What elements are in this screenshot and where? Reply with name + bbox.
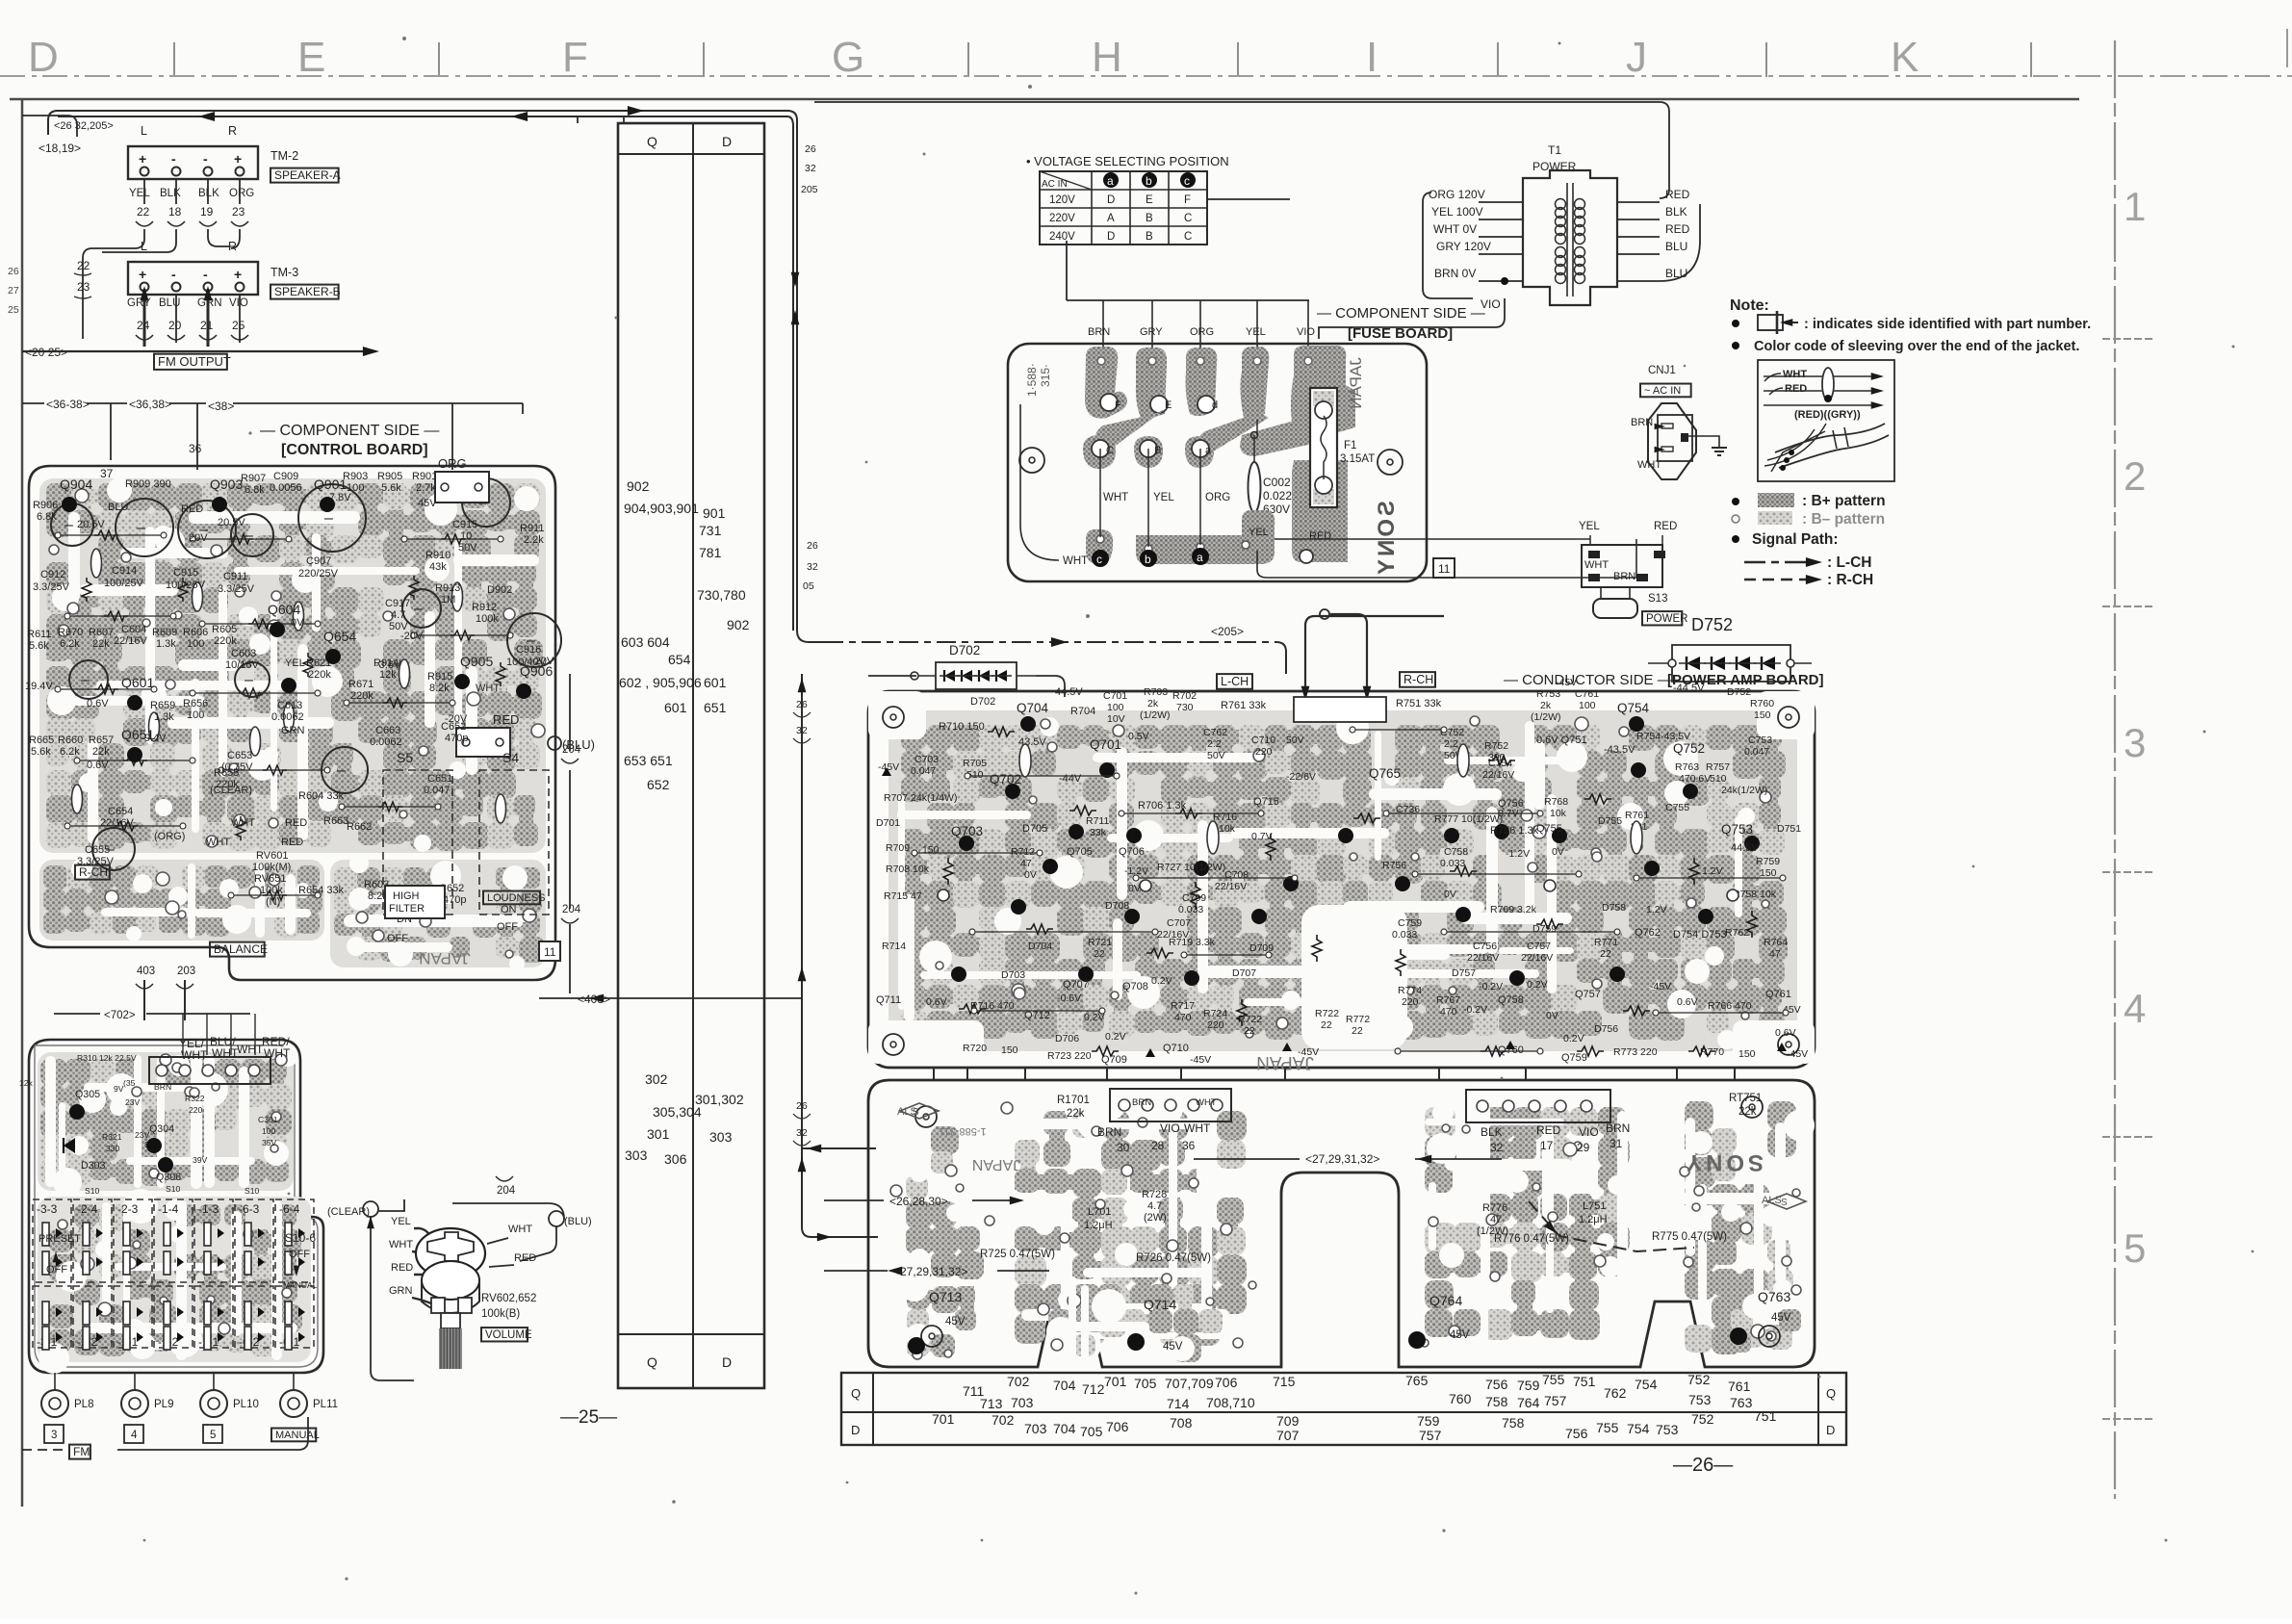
svg-text:Q702: Q702 <box>990 772 1021 786</box>
svg-text:-0.2V: -0.2V <box>1463 1004 1487 1016</box>
svg-text:22/16V: 22/16V <box>1215 881 1247 892</box>
svg-text:100/25V: 100/25V <box>104 578 144 589</box>
svg-text:<205>: <205> <box>1211 625 1244 638</box>
svg-text:F: F <box>562 34 588 81</box>
svg-text:RV602,652: RV602,652 <box>481 1293 536 1304</box>
svg-text:220k: 220k <box>214 635 237 647</box>
svg-text:0V: 0V <box>291 617 304 629</box>
svg-text:Q755: Q755 <box>1536 823 1562 835</box>
svg-text:R767: R767 <box>1436 994 1460 1006</box>
svg-text:POWER: POWER <box>1646 613 1687 625</box>
wire color labels YEL BLK BLK ORG <box>129 188 254 199</box>
svg-text:R769 3.2k: R769 3.2k <box>1490 904 1537 915</box>
svg-text:R715 47: R715 47 <box>884 890 922 902</box>
svg-text:C915: C915 <box>452 519 477 530</box>
svg-text:R752: R752 <box>1484 740 1508 752</box>
svg-text:BRN: BRN <box>1088 326 1110 338</box>
svg-text:23: 23 <box>77 280 90 294</box>
label D752 page ref <box>1691 615 1733 634</box>
svg-text:R725 0.47(5W): R725 0.47(5W) <box>980 1249 1055 1260</box>
svg-text:R659: R659 <box>150 700 175 711</box>
svg-text:(1/2W): (1/2W) <box>1531 711 1561 723</box>
svg-text:YEL: YEL <box>1249 527 1269 538</box>
lower vertical bus <box>793 674 811 1227</box>
transformer secondary labels <box>1665 188 1690 280</box>
fuse board feeder wires BRN GRY ORG YEL VIO <box>1067 199 1315 366</box>
top ruler letters D-K <box>28 34 1919 81</box>
svg-text:[CONTROL BOARD]: [CONTROL BOARD] <box>281 442 428 458</box>
control board R-CH box <box>75 865 110 880</box>
svg-text:YEL: YEL <box>285 657 305 669</box>
svg-text:a: a <box>1197 551 1203 564</box>
fuse board label YEL RED bottom <box>1249 527 1331 542</box>
svg-text:BLK: BLK <box>198 188 219 199</box>
lower board part labels left <box>929 1095 1217 1353</box>
svg-text:R707 24k(1/4W): R707 24k(1/4W) <box>884 792 957 804</box>
svg-text:MANUAL: MANUAL <box>283 1280 318 1290</box>
svg-text:-45V: -45V <box>1787 1048 1808 1060</box>
svg-text:D757: D757 <box>1452 967 1476 979</box>
fuse board copper blob ORG <box>1186 348 1218 416</box>
svg-text:R757: R757 <box>1706 761 1730 773</box>
svg-text:–: – <box>81 672 90 688</box>
svg-text:-: - <box>203 267 208 282</box>
svg-text:701: 701 <box>932 1411 955 1427</box>
fuse board lower right copper block <box>1292 460 1348 563</box>
power amp board outline <box>868 691 1815 1068</box>
terminal numbers 24 20 21 25 <box>136 295 248 340</box>
svg-text:36: 36 <box>189 442 202 455</box>
svg-text:601: 601 <box>704 675 727 690</box>
speaker A wires to bus <box>83 229 240 339</box>
svg-text:0.047: 0.047 <box>911 765 936 777</box>
svg-text:0.5V: 0.5V <box>1128 731 1149 742</box>
control board RED junction box <box>456 712 595 757</box>
svg-text:R-CH: R-CH <box>79 865 108 879</box>
svg-text:0V: 0V <box>1024 869 1037 881</box>
svg-text:C301: C301 <box>258 1115 278 1124</box>
svg-text:SPEAKER-A: SPEAKER-A <box>274 168 341 182</box>
svg-text:702: 702 <box>1007 1374 1030 1389</box>
svg-text:R717: R717 <box>1171 1000 1195 1012</box>
svg-text:RED: RED <box>514 1252 536 1264</box>
svg-text:— COMPONENT SIDE —: — COMPONENT SIDE — <box>1317 305 1485 322</box>
svg-text:C755: C755 <box>1665 802 1689 813</box>
svg-text:C916: C916 <box>516 644 541 656</box>
svg-text:10: 10 <box>460 530 472 542</box>
bottom table headers Q D <box>851 1386 1836 1437</box>
fuse board label WHT bottom left <box>1020 404 1088 567</box>
volume pot labels <box>481 1293 536 1341</box>
left border small labels 26 27 25 <box>8 266 19 316</box>
svg-text:752: 752 <box>1687 1372 1711 1387</box>
svg-text:651: 651 <box>704 700 727 715</box>
svg-text:D751: D751 <box>1777 823 1801 835</box>
svg-text:(1/2W): (1/2W) <box>1140 709 1171 721</box>
svg-text:WHT 0V: WHT 0V <box>1433 222 1477 236</box>
svg-text:-0.2V: -0.2V <box>1479 981 1503 992</box>
svg-text:(2W): (2W) <box>1144 1212 1167 1224</box>
svg-text:D: D <box>722 1354 732 1370</box>
svg-text:K: K <box>1891 34 1919 81</box>
svg-text:712: 712 <box>1082 1381 1105 1397</box>
top ruler tick marks <box>174 42 2031 77</box>
svg-text:WHT: WHT <box>389 1239 413 1250</box>
svg-text:R901: R901 <box>412 471 437 482</box>
svg-text:12k: 12k <box>379 669 397 681</box>
svg-text:470: 470 <box>1440 1006 1457 1018</box>
legend B- pattern <box>1732 511 1885 528</box>
svg-text:: B– pattern: : B– pattern <box>1802 511 1885 528</box>
svg-text:4.7: 4.7 <box>391 609 405 621</box>
svg-text:44.5V: 44.5V <box>1055 686 1083 698</box>
svg-text:BRN: BRN <box>1631 417 1653 428</box>
svg-text:Q761: Q761 <box>1765 989 1791 1000</box>
svg-text:Q710: Q710 <box>1163 1043 1189 1054</box>
svg-text:32: 32 <box>796 725 808 736</box>
svg-text:-44.5V: -44.5V <box>1673 683 1705 694</box>
svg-text:751: 751 <box>1573 1374 1596 1389</box>
svg-text:—25—: —25— <box>560 1407 617 1428</box>
svg-text:-2-3: -2-3 <box>117 1202 139 1216</box>
svg-text:YEL 100V: YEL 100V <box>1431 205 1483 219</box>
svg-text:MANUAL: MANUAL <box>275 1430 320 1441</box>
control board side-id box 11 <box>539 941 560 961</box>
svg-text:765: 765 <box>1405 1373 1429 1388</box>
svg-text:1.2μH: 1.2μH <box>1084 1220 1113 1231</box>
svg-text:2.2: 2.2 <box>1207 738 1222 750</box>
svg-text:Q711: Q711 <box>876 994 901 1006</box>
svg-text:–: – <box>137 520 145 536</box>
voltage selecting table <box>1040 171 1207 245</box>
wire 403 from control board to right <box>539 924 802 1006</box>
svg-text:2.7k: 2.7k <box>416 482 436 494</box>
left bus labels 22 23 <box>74 259 91 298</box>
svg-text:0V: 0V <box>1128 883 1141 894</box>
svg-text:2k: 2k <box>1540 700 1552 711</box>
svg-text:763: 763 <box>1730 1395 1753 1410</box>
svg-text:20.5V: 20.5V <box>77 519 105 530</box>
svg-text:R611: R611 <box>27 629 51 640</box>
jacket diagram wires and labels <box>1764 368 1889 472</box>
volume pot wires <box>367 1199 556 1380</box>
svg-text:Q712: Q712 <box>1024 1010 1050 1021</box>
svg-text:RV651: RV651 <box>254 873 286 885</box>
svg-text:Q759: Q759 <box>1561 1052 1587 1064</box>
svg-text:R720: R720 <box>963 1043 987 1054</box>
svg-text:D705: D705 <box>1022 823 1047 835</box>
svg-text:36: 36 <box>1182 1139 1196 1152</box>
svg-text:+: + <box>139 267 146 282</box>
connector CNJ1 outline <box>1648 403 1696 479</box>
svg-text:759: 759 <box>1417 1413 1440 1429</box>
note heading <box>1730 297 1769 314</box>
svg-text:654: 654 <box>668 652 691 667</box>
svg-text:S10-6: S10-6 <box>285 1231 316 1245</box>
svg-text:R1701: R1701 <box>1057 1095 1090 1106</box>
svg-text:-45V: -45V <box>1556 677 1577 688</box>
svg-text:RED: RED <box>1665 222 1690 236</box>
svg-text:C759: C759 <box>1398 917 1422 929</box>
svg-text:GRY: GRY <box>1140 326 1163 338</box>
svg-text:: B+ pattern: : B+ pattern <box>1802 493 1886 509</box>
svg-text:6.8k: 6.8k <box>245 484 265 496</box>
control board LOUDNESS label <box>483 891 546 905</box>
svg-text:D706: D706 <box>1055 1033 1079 1044</box>
svg-text:R711: R711 <box>1086 815 1109 827</box>
svg-text:Q706: Q706 <box>1119 846 1145 858</box>
svg-text:601: 601 <box>664 700 687 715</box>
svg-text:0V: 0V <box>1444 889 1456 900</box>
lower board connector box right <box>1466 1090 1630 1154</box>
svg-text:Q708: Q708 <box>1122 981 1148 992</box>
svg-text:a: a <box>1205 445 1212 456</box>
right ruler segment ticks <box>2102 339 2154 1419</box>
svg-text:652: 652 <box>647 777 670 792</box>
fm output wire 20-25 <box>22 318 379 359</box>
svg-text:470p: 470p <box>443 894 466 906</box>
svg-text:BLU: BLU <box>1665 240 1687 253</box>
svg-text:BRN: BRN <box>1606 1121 1630 1135</box>
fuse board SONY mirrored <box>1374 501 1400 578</box>
svg-text:C911: C911 <box>223 571 247 582</box>
svg-text:<36,38>: <36,38> <box>129 398 171 411</box>
page number -25- <box>560 1407 617 1428</box>
svg-text:22k: 22k <box>92 746 110 758</box>
svg-text:G: G <box>832 34 864 81</box>
svg-text:<702>: <702> <box>104 1010 136 1021</box>
svg-text:754: 754 <box>1627 1421 1650 1436</box>
vertical bus labels 26 32 205 upper <box>791 143 818 324</box>
fuse board circled letters F E d <box>1106 400 1218 456</box>
svg-text:730,780: 730,780 <box>697 587 746 603</box>
svg-text:708,710: 708,710 <box>1206 1395 1255 1410</box>
svg-text:<18,19>: <18,19> <box>39 142 81 155</box>
svg-text:5: 5 <box>2124 1225 2146 1271</box>
svg-text:32: 32 <box>807 561 818 573</box>
svg-text:17: 17 <box>1540 1139 1554 1152</box>
svg-text:C604: C604 <box>121 624 146 635</box>
svg-text:R762: R762 <box>1725 927 1749 939</box>
svg-text:YEL: YEL <box>1153 492 1174 503</box>
svg-text:Q752: Q752 <box>1673 741 1705 756</box>
svg-text:D: D <box>28 34 59 81</box>
svg-text:220: 220 <box>1402 996 1419 1008</box>
svg-text:100: 100 <box>187 709 204 721</box>
svg-text:Q714: Q714 <box>1144 1297 1176 1312</box>
svg-text:TM-3: TM-3 <box>270 266 298 279</box>
svg-text:: L-CH: : L-CH <box>1827 554 1872 571</box>
drawing frame top line <box>10 98 2079 101</box>
svg-text:R774: R774 <box>1398 985 1422 996</box>
svg-text:603 604: 603 604 <box>621 634 670 650</box>
svg-text:R760: R760 <box>1750 698 1774 709</box>
fm board FM bus label <box>22 1417 308 1459</box>
svg-text:D: D <box>1107 194 1115 206</box>
svg-text:E: E <box>297 34 325 81</box>
svg-text:753: 753 <box>1656 1422 1679 1437</box>
svg-text:4: 4 <box>2124 986 2146 1031</box>
svg-text:S: S <box>913 1107 919 1118</box>
svg-text:22/16V: 22/16V <box>1467 952 1499 964</box>
svg-text:10V: 10V <box>1107 713 1125 725</box>
svg-text:708: 708 <box>1170 1415 1193 1431</box>
svg-text:2.2: 2.2 <box>1444 738 1458 750</box>
svg-text:100: 100 <box>1107 702 1124 713</box>
svg-text:BLK: BLK <box>1481 1125 1503 1139</box>
svg-text:[FUSE BOARD]: [FUSE BOARD] <box>1348 325 1453 342</box>
wire label 18,19 bracket <box>22 116 81 155</box>
svg-text:R771: R771 <box>1594 937 1618 948</box>
svg-text:701: 701 <box>1104 1374 1127 1389</box>
svg-text:c: c <box>1184 174 1190 188</box>
svg-text:C663: C663 <box>375 725 400 736</box>
svg-text:c: c <box>1096 553 1102 566</box>
svg-text:–: – <box>245 528 253 544</box>
svg-text:Q762: Q762 <box>1635 927 1661 939</box>
svg-text:R722: R722 <box>1315 1008 1339 1019</box>
svg-text:BRN: BRN <box>154 1082 171 1092</box>
svg-text:FILTER: FILTER <box>389 903 425 915</box>
svg-text:R768: R768 <box>1544 796 1568 808</box>
svg-text:100k: 100k <box>476 613 499 625</box>
svg-text:R321: R321 <box>102 1132 122 1142</box>
svg-text:302: 302 <box>645 1071 668 1087</box>
svg-text:C708: C708 <box>1224 869 1249 881</box>
svg-text:RED: RED <box>493 712 519 727</box>
lower board copper pattern right <box>1421 1101 1815 1354</box>
svg-text:5.6k: 5.6k <box>31 746 51 758</box>
svg-text:43k: 43k <box>429 561 447 573</box>
svg-text:23V: 23V <box>125 1097 141 1107</box>
svg-text:0.033: 0.033 <box>1440 858 1465 869</box>
svg-text:Q703: Q703 <box>951 824 983 838</box>
power connector YEL RED labels <box>1579 521 1677 545</box>
svg-text:403: 403 <box>137 966 155 977</box>
svg-text:WHT: WHT <box>206 837 230 848</box>
svg-text:<26,28,30>: <26,28,30> <box>889 1195 948 1208</box>
right ruler numbers 1-5 <box>2124 184 2146 1271</box>
top harness double wire <box>48 106 787 135</box>
control board switch S4 box <box>479 770 549 915</box>
svg-text:1-588-311: 1-588-311 <box>939 1125 986 1137</box>
note bullet 1 part-number side <box>1732 311 2091 334</box>
svg-text:714: 714 <box>1167 1396 1190 1411</box>
svg-text:0.6V: 0.6V <box>1677 996 1698 1008</box>
svg-text:H: H <box>1092 34 1122 81</box>
svg-text:C613: C613 <box>277 700 302 711</box>
svg-text:23: 23 <box>232 205 245 219</box>
svg-text:Q753: Q753 <box>1721 822 1753 837</box>
svg-text:R910: R910 <box>425 550 451 561</box>
svg-text:901: 901 <box>703 505 726 521</box>
svg-text:R: R <box>228 124 237 138</box>
power amp board capsule components <box>938 744 1738 901</box>
svg-text:D702: D702 <box>949 643 980 657</box>
lower board signal wire 27-29-31-32 <box>1194 1152 1502 1166</box>
svg-text:3: 3 <box>2124 720 2146 765</box>
svg-text:Note:: Note: <box>1730 297 1769 314</box>
fuse board copper blob BRN <box>1085 347 1127 419</box>
svg-text:22: 22 <box>1244 1025 1255 1037</box>
control board copper pattern <box>39 477 546 971</box>
fm switch matrix upper row <box>33 1199 314 1282</box>
svg-text:(ORG): (ORG) <box>154 831 185 842</box>
svg-text:WHT: WHT <box>1063 555 1088 567</box>
svg-text:C907: C907 <box>306 555 331 567</box>
svg-text:19: 19 <box>200 205 214 219</box>
svg-text:VOLUME: VOLUME <box>485 1329 532 1341</box>
svg-text:E: E <box>1146 194 1153 206</box>
fm switch contacts <box>42 1223 305 1350</box>
svg-text:R909 390: R909 390 <box>125 478 171 490</box>
fuse board pad B <box>1134 436 1163 468</box>
svg-text:703: 703 <box>1011 1395 1034 1410</box>
svg-text:150: 150 <box>1738 1048 1756 1060</box>
svg-text:204: 204 <box>562 744 581 756</box>
svg-text:902: 902 <box>727 617 750 632</box>
svg-text:R606: R606 <box>183 627 208 638</box>
svg-text:• VOLTAGE SELECTING POSITION: • VOLTAGE SELECTING POSITION <box>1026 154 1229 168</box>
svg-text:10/16V: 10/16V <box>225 659 260 671</box>
svg-text:FM: FM <box>73 1445 90 1458</box>
svg-text:Q705: Q705 <box>1067 846 1093 858</box>
svg-text:1.2V: 1.2V <box>1702 865 1723 877</box>
svg-text:-43.5V: -43.5V <box>1604 744 1635 756</box>
svg-text:R753: R753 <box>1536 688 1560 700</box>
svg-text:2.2k: 2.2k <box>524 534 544 546</box>
svg-text:BRN: BRN <box>1613 571 1635 582</box>
svg-text:5.6k: 5.6k <box>29 640 49 652</box>
svg-text:100: 100 <box>1579 700 1596 711</box>
svg-text:1.3k: 1.3k <box>154 711 174 723</box>
svg-text:D752: D752 <box>1691 615 1733 634</box>
power amp board copper pattern <box>888 710 1797 1051</box>
arrow into TM-3 terminals <box>141 286 213 347</box>
svg-text:470: 470 <box>1174 1012 1192 1023</box>
svg-text:-2-4: -2-4 <box>77 1202 98 1216</box>
svg-text:D: D <box>722 134 732 149</box>
svg-text:1.3k: 1.3k <box>156 638 176 650</box>
capacitor C002 <box>1249 432 1293 517</box>
svg-text:R756 1.3k: R756 1.3k <box>1490 825 1539 837</box>
svg-text:C710: C710 <box>1251 735 1275 746</box>
svg-text:Q707: Q707 <box>1063 979 1089 991</box>
svg-text:704: 704 <box>1053 1421 1076 1436</box>
svg-text:-20V: -20V <box>400 631 424 642</box>
control board switch S5 dashed box <box>383 770 452 915</box>
svg-text:R663: R663 <box>323 815 348 827</box>
svg-text:902: 902 <box>627 478 650 494</box>
power switch S13 <box>1593 587 1687 625</box>
fm board diode D303 <box>64 1138 75 1153</box>
svg-text:757: 757 <box>1419 1428 1442 1443</box>
svg-text:204: 204 <box>497 1185 516 1197</box>
svg-text:707,709: 707,709 <box>1165 1376 1214 1391</box>
svg-text:B: B <box>1146 231 1153 243</box>
volume wire to 204 <box>452 1176 564 1219</box>
svg-text:Q904: Q904 <box>60 477 92 492</box>
svg-text:S5: S5 <box>397 750 413 765</box>
note bullet 2 color code <box>1732 339 2079 354</box>
power amp board transistor dots <box>951 716 1760 986</box>
svg-text:781: 781 <box>699 545 722 560</box>
svg-text:GRN: GRN <box>281 725 305 736</box>
svg-text:R766 470: R766 470 <box>1708 1000 1752 1012</box>
svg-text:WHT: WHT <box>1184 1121 1211 1135</box>
svg-text:: R-CH: : R-CH <box>1827 572 1873 588</box>
svg-text:-45V: -45V <box>1190 1054 1211 1066</box>
